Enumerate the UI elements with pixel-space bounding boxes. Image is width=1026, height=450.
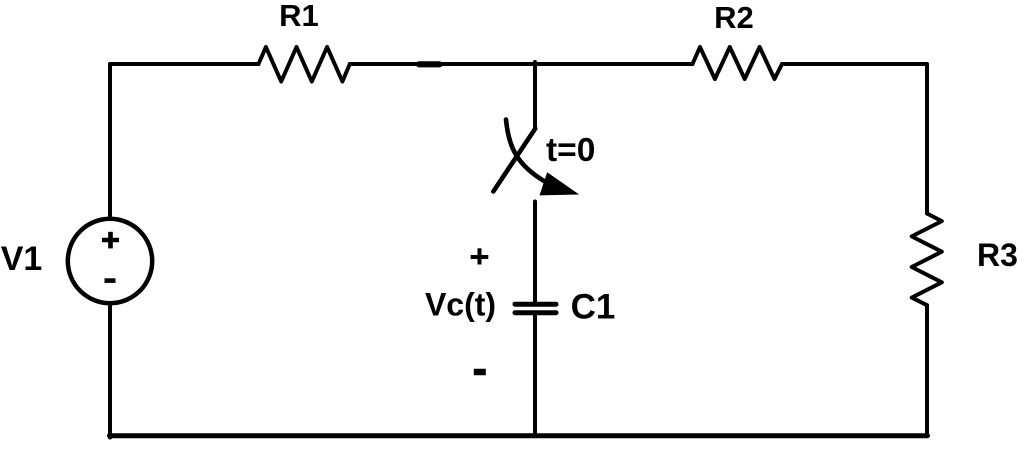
- svg-text:R3: R3: [977, 237, 1018, 273]
- resistor R2: [693, 47, 783, 79]
- wire left vertical lower segment: [108, 304, 112, 438]
- svg-text:C1: C1: [571, 288, 616, 327]
- polarity plus sign inside V1: [102, 232, 119, 249]
- wire middle branch top segment (rail to switch): [533, 62, 537, 129]
- switch SW1 motion arc: [506, 120, 545, 182]
- svg-text:Vc(t): Vc(t): [425, 287, 496, 323]
- polarity plus sign for Vc(t): [471, 248, 489, 264]
- resistor R3: [912, 214, 942, 306]
- svg-text:R1: R1: [279, 0, 319, 33]
- wire overlap joint on top rail: [419, 61, 440, 67]
- voltage source V1 circle: [68, 219, 152, 303]
- polarity minus sign for Vc(t): [474, 369, 486, 376]
- wire right vertical lower segment: [925, 305, 929, 435]
- wire bottom rail: [110, 433, 928, 438]
- wire left vertical upper segment: [108, 64, 112, 218]
- wire middle branch bottom segment (capacitor to bottom rail): [533, 315, 537, 436]
- svg-text:t=0: t=0: [546, 132, 595, 169]
- wire top rail right segment (R2 to top-right corner): [782, 64, 927, 214]
- svg-text:R2: R2: [714, 0, 754, 35]
- wire top rail left segment (V1 to R1): [110, 64, 259, 70]
- switch SW1 blade (open, t=0): [493, 129, 535, 192]
- wire middle branch segment (switch to capacitor): [533, 202, 537, 303]
- resistor R1: [259, 47, 350, 82]
- polarity minus sign inside V1: [105, 278, 116, 283]
- svg-text:V1: V1: [1, 240, 43, 278]
- switch SW1 arrowhead: [540, 172, 580, 195]
- wire top rail middle segment (R1 to R2): [350, 62, 693, 66]
- capacitor C1 bottom plate: [515, 310, 556, 315]
- capacitor C1 top plate: [515, 302, 556, 307]
